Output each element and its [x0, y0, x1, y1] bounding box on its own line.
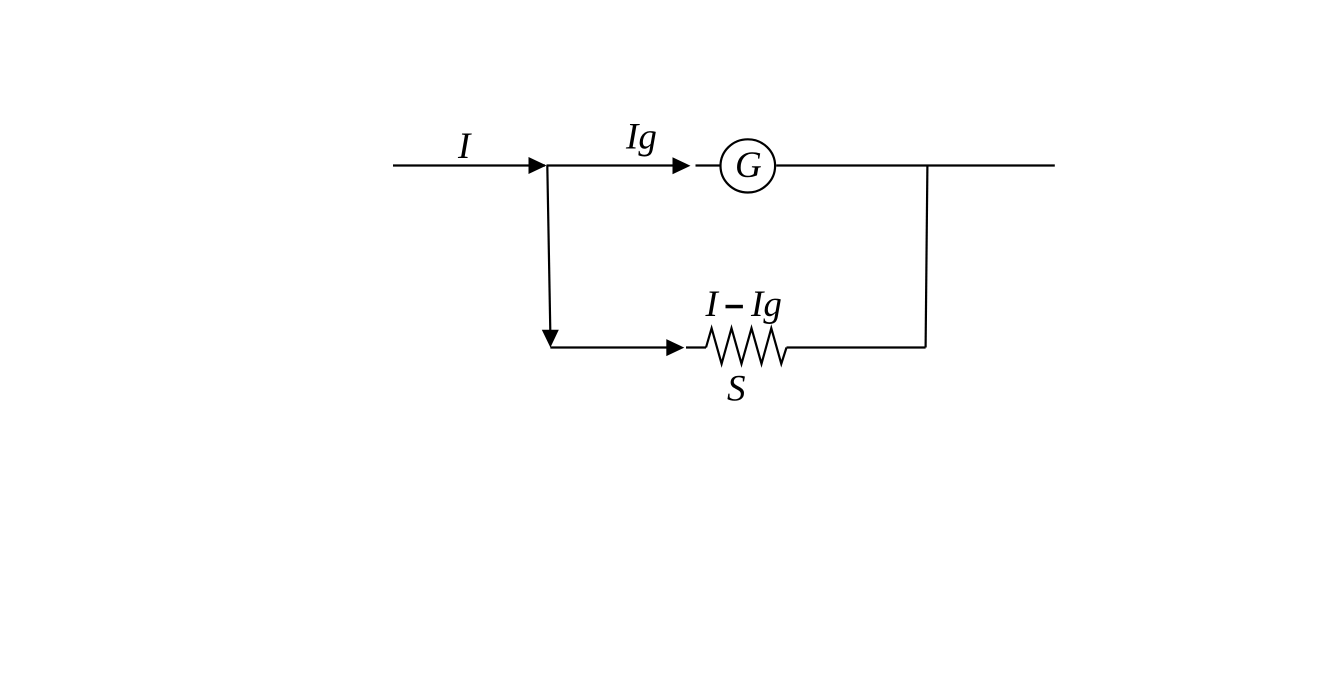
wire: left vertical drop (shunt branch) — [547, 166, 550, 332]
arrowhead: current I-Ig downward — [542, 330, 559, 348]
wire: bottom left horizontal — [550, 346, 667, 348]
wire: resistor to bottom-right corner — [787, 346, 926, 348]
wire: right vertical drop to shunt — [926, 166, 928, 348]
galvanometer G (circle) — [721, 139, 776, 192]
wire: input lead left — [393, 164, 545, 166]
resistor S (shunt zigzag) — [706, 328, 787, 364]
wire: junction to galvanometer arrow — [547, 164, 674, 166]
svg-text:Ig: Ig — [625, 117, 657, 158]
arrowhead: current Ig toward galvanometer — [673, 157, 691, 174]
svg-text:I: I — [705, 284, 720, 325]
svg-text:G: G — [735, 145, 762, 186]
svg-text:S: S — [727, 369, 746, 410]
svg-text:Ig: Ig — [750, 284, 782, 325]
svg-text:I: I — [457, 126, 472, 167]
arrowhead: current I-Ig toward shunt — [666, 339, 684, 356]
wire: short lead into galvanometer — [696, 164, 720, 166]
wire: short lead into resistor — [686, 346, 706, 348]
wire: galvanometer to right output lead — [776, 164, 1055, 166]
arrowhead: current I into junction — [529, 157, 547, 174]
